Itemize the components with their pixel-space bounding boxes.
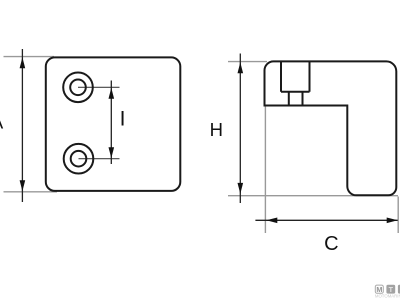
svg-text:C: C (324, 233, 338, 255)
svg-text:H: H (210, 119, 223, 140)
svg-text:MOTOMARINE: MOTOMARINE (375, 294, 400, 299)
svg-text:I: I (120, 108, 126, 131)
svg-text:A: A (0, 111, 4, 132)
